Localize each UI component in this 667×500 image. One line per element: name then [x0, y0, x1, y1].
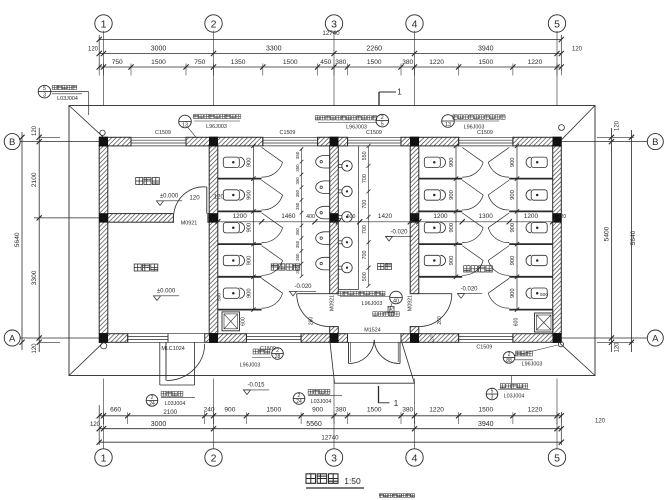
- svg-text:120: 120: [572, 47, 583, 53]
- svg-text:1220: 1220: [528, 59, 543, 66]
- svg-text:2: 2: [211, 18, 217, 30]
- svg-text:120: 120: [595, 419, 606, 425]
- svg-text:-0.020: -0.020: [294, 284, 312, 290]
- svg-text:900: 900: [449, 157, 455, 167]
- svg-text:C1509: C1509: [366, 130, 382, 136]
- svg-text:660: 660: [110, 407, 121, 414]
- svg-text:C1509: C1509: [476, 344, 492, 350]
- svg-text:900: 900: [510, 190, 516, 200]
- svg-text:500: 500: [217, 293, 223, 301]
- svg-text:3940: 3940: [478, 421, 494, 428]
- svg-text:1200: 1200: [233, 213, 248, 220]
- svg-text:1500: 1500: [266, 407, 281, 414]
- svg-text:120: 120: [558, 214, 567, 220]
- svg-text:13: 13: [445, 122, 451, 128]
- svg-text:2100: 2100: [163, 409, 177, 416]
- svg-text:1200: 1200: [524, 213, 539, 220]
- svg-text:500: 500: [540, 292, 548, 298]
- svg-text:900: 900: [247, 256, 253, 266]
- svg-text:260: 260: [309, 317, 315, 326]
- svg-text:1500: 1500: [478, 59, 493, 66]
- svg-text:700: 700: [362, 225, 368, 234]
- svg-text:C1509: C1509: [260, 346, 276, 352]
- svg-text:120: 120: [88, 47, 99, 53]
- svg-text:120: 120: [214, 193, 225, 200]
- svg-text:1500: 1500: [151, 59, 166, 66]
- svg-text:5: 5: [43, 86, 46, 92]
- svg-text:120: 120: [410, 214, 419, 220]
- svg-text:3300: 3300: [31, 270, 38, 285]
- svg-text:-0.020: -0.020: [390, 229, 408, 235]
- svg-text:5: 5: [554, 18, 560, 30]
- svg-text:1420: 1420: [378, 213, 393, 220]
- svg-text:±0.000: ±0.000: [157, 289, 176, 295]
- svg-text:450: 450: [320, 59, 331, 66]
- svg-text:5640: 5640: [630, 230, 637, 245]
- svg-text:3000: 3000: [151, 46, 167, 53]
- svg-text:L03J004: L03J004: [311, 399, 332, 405]
- svg-text:88: 88: [506, 358, 512, 364]
- svg-text:L96J003: L96J003: [346, 124, 367, 130]
- svg-text:L96J003: L96J003: [206, 124, 227, 130]
- svg-text:350: 350: [295, 189, 300, 197]
- svg-text:1300: 1300: [479, 213, 494, 220]
- svg-text:M1524: M1524: [364, 327, 380, 333]
- svg-text:3: 3: [43, 92, 46, 98]
- svg-text:350: 350: [295, 227, 300, 235]
- svg-text:24: 24: [296, 399, 302, 405]
- svg-text:5640: 5640: [14, 232, 21, 247]
- svg-text:380: 380: [335, 407, 346, 414]
- svg-text:40: 40: [393, 298, 399, 304]
- svg-text:1: 1: [394, 399, 399, 408]
- svg-text:MLC1024: MLC1024: [161, 346, 184, 352]
- svg-text:24: 24: [149, 401, 155, 407]
- svg-text:3300: 3300: [266, 46, 282, 53]
- svg-text:900: 900: [449, 190, 455, 200]
- svg-text:1200: 1200: [433, 213, 448, 220]
- svg-text:900: 900: [449, 256, 455, 266]
- svg-text:B: B: [9, 137, 15, 148]
- svg-text:L96J003: L96J003: [362, 301, 383, 307]
- svg-text:12740: 12740: [321, 434, 339, 441]
- svg-text:900: 900: [510, 157, 516, 167]
- svg-text:±0.000: ±0.000: [160, 194, 179, 200]
- svg-text:350: 350: [295, 177, 300, 185]
- svg-text:400: 400: [306, 214, 315, 220]
- svg-text:120: 120: [615, 120, 621, 131]
- svg-text:3: 3: [331, 452, 337, 464]
- svg-text:120: 120: [32, 343, 38, 354]
- svg-text:900: 900: [510, 223, 516, 233]
- svg-text:900: 900: [247, 288, 253, 298]
- svg-text:120: 120: [430, 335, 436, 343]
- svg-text:28: 28: [275, 354, 281, 360]
- svg-text:L96J003: L96J003: [522, 361, 543, 367]
- svg-text:L03J004: L03J004: [504, 393, 525, 399]
- svg-text:5: 5: [554, 452, 560, 464]
- svg-text:3: 3: [331, 18, 337, 30]
- svg-text:M0921: M0921: [330, 295, 336, 311]
- svg-text:900: 900: [224, 407, 235, 414]
- svg-text:A: A: [652, 333, 659, 344]
- svg-text:5400: 5400: [604, 226, 611, 241]
- svg-text:M0921: M0921: [408, 295, 414, 311]
- svg-text:1500: 1500: [283, 59, 298, 66]
- svg-text:4: 4: [412, 452, 418, 464]
- svg-text:550: 550: [362, 151, 368, 160]
- svg-text:1500: 1500: [367, 407, 382, 414]
- svg-text:700: 700: [362, 251, 368, 260]
- svg-text:240: 240: [204, 407, 215, 414]
- svg-text:1: 1: [101, 18, 107, 30]
- svg-text:1: 1: [397, 88, 402, 97]
- svg-text:-0.020: -0.020: [460, 287, 478, 293]
- svg-text:380: 380: [402, 407, 413, 414]
- svg-text:1:50: 1:50: [344, 476, 361, 486]
- svg-text:3000: 3000: [151, 421, 167, 428]
- svg-text:1220: 1220: [429, 407, 444, 414]
- svg-text:2260: 2260: [366, 46, 382, 53]
- svg-text:1500: 1500: [478, 407, 493, 414]
- svg-text:120: 120: [32, 125, 38, 136]
- svg-text:380: 380: [335, 59, 346, 66]
- svg-text:4: 4: [412, 18, 418, 30]
- svg-text:L03J004: L03J004: [165, 401, 186, 407]
- svg-text:350: 350: [295, 240, 300, 248]
- svg-text:5: 5: [381, 121, 384, 127]
- svg-text:B: B: [652, 137, 658, 148]
- svg-text:900: 900: [510, 256, 516, 266]
- svg-text:900: 900: [247, 157, 253, 167]
- svg-text:C1509: C1509: [155, 130, 171, 136]
- svg-text:600: 600: [347, 214, 356, 220]
- svg-text:2100: 2100: [31, 172, 38, 187]
- svg-text:2: 2: [381, 115, 384, 121]
- svg-text:120: 120: [615, 342, 621, 353]
- svg-text:260: 260: [437, 316, 443, 325]
- svg-text:3: 3: [491, 394, 494, 400]
- svg-text:2: 2: [211, 452, 217, 464]
- svg-text:380: 380: [402, 59, 413, 66]
- svg-text:900: 900: [510, 288, 516, 298]
- svg-text:3940: 3940: [478, 46, 494, 53]
- svg-text:A: A: [9, 333, 16, 344]
- svg-text:350: 350: [295, 164, 300, 172]
- svg-text:5560: 5560: [306, 421, 322, 428]
- svg-text:900: 900: [312, 407, 323, 414]
- svg-text:900: 900: [247, 223, 253, 233]
- svg-text:M0921: M0921: [181, 221, 197, 227]
- svg-text:600: 600: [514, 318, 520, 327]
- svg-text:1350: 1350: [231, 59, 246, 66]
- svg-text:L96J003: L96J003: [240, 363, 261, 369]
- svg-text:750: 750: [194, 59, 205, 66]
- svg-text:120: 120: [189, 194, 200, 201]
- svg-text:1220: 1220: [429, 59, 444, 66]
- svg-text:700: 700: [362, 174, 368, 183]
- svg-text:C1509: C1509: [280, 130, 296, 136]
- svg-text:750: 750: [112, 59, 123, 66]
- svg-text:900: 900: [449, 223, 455, 233]
- svg-text:1460: 1460: [281, 213, 296, 220]
- svg-text:350: 350: [295, 202, 300, 210]
- svg-text:L03J004: L03J004: [57, 96, 78, 102]
- svg-text:350: 350: [295, 151, 300, 159]
- svg-text:600: 600: [241, 317, 247, 326]
- svg-text:13: 13: [182, 122, 188, 128]
- svg-text:700: 700: [362, 200, 368, 209]
- svg-text:C1509: C1509: [477, 130, 493, 136]
- svg-text:900: 900: [247, 190, 253, 200]
- svg-text:500: 500: [362, 272, 368, 281]
- svg-text:350: 350: [295, 253, 300, 261]
- svg-text:1500: 1500: [367, 59, 382, 66]
- svg-text:1220: 1220: [528, 407, 543, 414]
- svg-text:1: 1: [101, 452, 107, 464]
- svg-text:-0.015: -0.015: [247, 383, 265, 389]
